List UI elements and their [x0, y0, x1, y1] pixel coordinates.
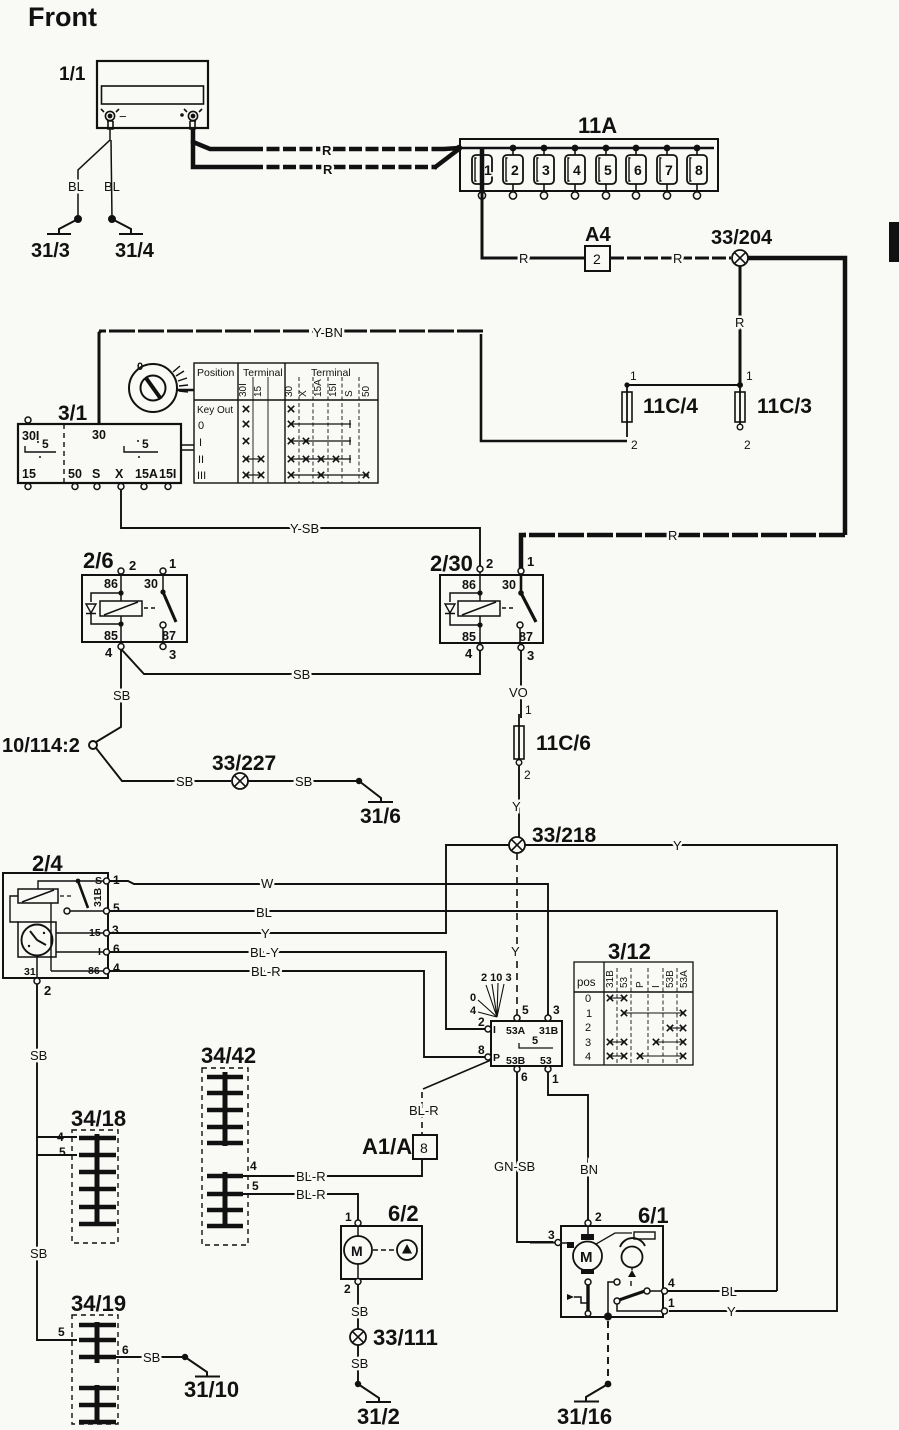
svg-text:1: 1	[668, 1296, 675, 1310]
svg-text:II: II	[198, 454, 204, 466]
svg-text:31B: 31B	[605, 970, 616, 988]
svg-text:BL: BL	[721, 1284, 737, 1299]
pin circles 3/1 bottom	[25, 484, 171, 490]
wire VO 2/30 pin3 to fuse 11C/6	[509, 651, 532, 718]
ground 31/6	[359, 781, 401, 828]
svg-text:3: 3	[553, 1003, 560, 1017]
svg-text:3: 3	[548, 1228, 555, 1242]
svg-text:33/204: 33/204	[711, 227, 773, 249]
svg-text:11C/3: 11C/3	[757, 395, 812, 418]
svg-text:1: 1	[527, 554, 534, 569]
svg-text:53B: 53B	[506, 1055, 526, 1067]
svg-text:A1/A: A1/A	[362, 1134, 412, 1159]
svg-text:86: 86	[104, 577, 118, 591]
svg-text:A4: A4	[585, 224, 611, 246]
table marks row II	[243, 456, 249, 462]
svg-text:2: 2	[595, 1210, 602, 1224]
fuse 11A #8	[687, 145, 707, 199]
svg-text:11C/4: 11C/4	[643, 395, 698, 418]
svg-text:11C/6: 11C/6	[536, 732, 591, 755]
fuse 11A #6	[626, 145, 646, 199]
svg-text:2: 2	[129, 558, 136, 573]
svg-text:34/19: 34/19	[71, 1291, 126, 1316]
svg-text:Y: Y	[673, 838, 682, 853]
svg-text:R: R	[323, 162, 333, 177]
2/4 right edge pins	[104, 878, 110, 974]
6/1 motor M	[587, 1226, 589, 1234]
relay 2/30 diode	[450, 593, 480, 625]
svg-text:15A: 15A	[313, 379, 324, 397]
svg-text:BL: BL	[256, 905, 272, 920]
wire Y splice 33/218 right to 6/1 pin 1	[525, 838, 837, 1319]
wire SB 33/111 to ground 31/2	[351, 1345, 368, 1387]
svg-text:15A: 15A	[135, 467, 158, 481]
svg-text:15: 15	[22, 467, 36, 481]
svg-text:15I: 15I	[159, 467, 176, 481]
wire BL-R A1/A to 34/42 pin4	[243, 1159, 422, 1184]
svg-text:0: 0	[198, 420, 204, 432]
svg-text:5: 5	[142, 437, 149, 451]
svg-text:4: 4	[573, 162, 581, 178]
3/12 table marks	[607, 995, 613, 1001]
svg-text:P: P	[493, 1052, 500, 1064]
svg-text:3/1: 3/1	[58, 402, 88, 425]
stalk position fan	[478, 983, 504, 1017]
wire SB 10/114:2 to splice 33/227	[96, 748, 231, 789]
battery terminal negative	[101, 109, 127, 129]
svg-text:5: 5	[604, 162, 612, 178]
svg-text:6: 6	[521, 1070, 528, 1084]
svg-text:30I: 30I	[238, 383, 249, 397]
wire SB 34/18 to connector 34/19	[30, 1155, 77, 1340]
svg-text:5: 5	[252, 1179, 259, 1193]
6/1 motor to park contact	[585, 1279, 591, 1285]
svg-text:VO: VO	[509, 685, 528, 700]
svg-text:5: 5	[58, 1325, 65, 1339]
wire Y splice 33/218 to 2/4 pin 3	[109, 845, 509, 941]
svg-text:R: R	[735, 315, 744, 330]
wire BL 6/1 pin4 right	[668, 1284, 777, 1299]
rear wiper motor 6/1	[530, 1203, 675, 1321]
svg-text:7: 7	[665, 162, 673, 178]
svg-text:85: 85	[462, 630, 476, 644]
6/1 wiper linkage symbol	[596, 1233, 632, 1244]
svg-text:I: I	[651, 985, 662, 988]
wire Y 11C/6 to splice 33/218	[512, 765, 521, 837]
svg-text:15I: 15I	[328, 383, 339, 397]
wire R fuse1 to connector A4	[482, 148, 585, 266]
6/1 switch arm	[614, 1298, 620, 1304]
wire BN 3/12 pin1 to wiper motor 6/1 pin2	[548, 1072, 598, 1220]
svg-text:M: M	[580, 1249, 593, 1266]
wire R splice 33/204 down to fuse 11C/3	[735, 266, 744, 385]
svg-text:1: 1	[525, 703, 532, 717]
svg-text:Y: Y	[261, 926, 270, 941]
svg-text:31B: 31B	[539, 1025, 559, 1037]
svg-text:31B: 31B	[92, 887, 104, 907]
svg-text:11A: 11A	[578, 113, 617, 138]
svg-text:SB: SB	[351, 1356, 368, 1371]
relay 2/30 coil	[458, 601, 500, 616]
svg-text:30: 30	[284, 385, 295, 397]
svg-text:6/1: 6/1	[638, 1203, 669, 1228]
svg-text:S: S	[344, 390, 355, 397]
svg-text:P: P	[635, 981, 646, 988]
svg-text:4: 4	[250, 1159, 257, 1173]
svg-text:BL: BL	[104, 179, 120, 194]
2/4 coil	[18, 889, 58, 903]
wiper switch 3/12	[470, 972, 562, 1086]
fuse 11A #4	[565, 145, 585, 199]
wire SB 34/19 pin6 to ground 31/10	[116, 1350, 188, 1365]
relay 2/6 diode	[91, 593, 121, 624]
svg-text:BL-R: BL-R	[251, 964, 281, 979]
relay 2/6	[82, 548, 187, 662]
svg-text:Y: Y	[511, 944, 520, 959]
svg-text:6/2: 6/2	[388, 1201, 419, 1226]
link 3/1 to table	[181, 445, 194, 450]
svg-text:6: 6	[634, 162, 642, 178]
svg-text:1: 1	[484, 162, 492, 178]
wire BL 2/4 pin5 to 6/1 pin4	[110, 905, 777, 1291]
washer pump 6/2	[341, 1201, 422, 1296]
svg-text:Y: Y	[512, 799, 521, 814]
svg-text:4: 4	[585, 1051, 591, 1063]
svg-text:1: 1	[552, 1072, 559, 1086]
svg-text:53A: 53A	[506, 1025, 526, 1037]
svg-text:31/10: 31/10	[184, 1377, 239, 1402]
svg-text:2: 2	[44, 983, 51, 998]
svg-text:8: 8	[420, 1140, 428, 1156]
svg-text:X: X	[298, 390, 309, 397]
wire SB 2/6 pin4 down to 10/114:2	[96, 650, 130, 742]
svg-text:1: 1	[169, 556, 176, 571]
svg-text:2: 2	[585, 1022, 591, 1034]
svg-text:S: S	[92, 467, 100, 481]
ignition key cylinder	[129, 361, 194, 412]
svg-text:87: 87	[162, 629, 176, 643]
svg-text:30I: 30I	[22, 429, 39, 443]
intermittent wiper relay 2/4	[3, 851, 120, 998]
wire SB 2/4 pin2 down to connector 34/18	[30, 984, 77, 1155]
svg-text:50: 50	[68, 467, 82, 481]
fuse 11C/6	[514, 714, 591, 782]
svg-text:3: 3	[169, 647, 176, 662]
svg-text:6: 6	[113, 942, 120, 956]
wire SB 33/227 to ground 31/6	[248, 774, 362, 789]
svg-text:M: M	[351, 1243, 363, 1259]
ground 31/3	[31, 216, 81, 262]
svg-text:BL-R: BL-R	[296, 1187, 326, 1202]
svg-text:1/1: 1/1	[59, 64, 86, 85]
contact symbol 5 inside 3/12	[519, 1043, 553, 1048]
svg-text:8: 8	[478, 1043, 485, 1057]
svg-text:R: R	[673, 251, 682, 266]
svg-text:86: 86	[88, 965, 100, 977]
svg-text:33/218: 33/218	[532, 824, 597, 847]
svg-text:III: III	[197, 470, 206, 482]
wire BL-R 3/12 pin8 to connector A1/A	[409, 1060, 491, 1135]
title Front	[28, 2, 97, 32]
connector 34/19	[58, 1291, 129, 1424]
connector 34/18	[57, 1106, 126, 1243]
connector 10/114:2	[2, 735, 97, 757]
2/4 timer unit	[18, 922, 56, 957]
svg-text:3: 3	[542, 162, 550, 178]
svg-text:2: 2	[631, 438, 638, 452]
svg-text:3: 3	[112, 923, 119, 937]
svg-text:2: 2	[524, 768, 531, 782]
svg-text:87: 87	[519, 630, 533, 644]
svg-text:5: 5	[113, 901, 120, 915]
wire BL-R 34/42 pin5 to washer pump 6/2 pin1	[243, 1187, 358, 1220]
svg-text:SB: SB	[30, 1048, 47, 1063]
svg-text:2: 2	[744, 438, 751, 452]
wire GN-SB 3/12 pin6 to wiper motor 6/1 pin3	[494, 1072, 553, 1242]
svg-text:BL-R: BL-R	[296, 1169, 326, 1184]
wire 6/1 to ground 31/16	[605, 1321, 612, 1387]
svg-text:Y: Y	[727, 1304, 736, 1319]
svg-text:SB: SB	[176, 774, 193, 789]
svg-text:4: 4	[113, 961, 120, 975]
relay 2/30 switch	[520, 574, 523, 593]
svg-text:W: W	[261, 876, 274, 891]
scan mark right edge	[889, 222, 899, 262]
wire W 2/4 pin1 to switch 3/12 pin3	[110, 876, 548, 1015]
relay 2/30	[430, 551, 543, 663]
svg-text:SB: SB	[30, 1246, 47, 1261]
svg-text:0: 0	[585, 993, 591, 1005]
svg-text:Y-SB: Y-SB	[290, 521, 319, 536]
connector 34/42	[201, 1043, 259, 1245]
ground 31/4	[109, 216, 155, 262]
ground 31/10	[184, 1357, 239, 1402]
svg-text:1: 1	[113, 873, 120, 887]
table marks row III	[243, 472, 249, 478]
svg-text:S: S	[95, 875, 102, 887]
svg-text:Y-BN: Y-BN	[313, 325, 343, 340]
svg-text:31: 31	[24, 966, 36, 978]
svg-text:31/3: 31/3	[31, 240, 70, 262]
svg-text:2 10 3: 2 10 3	[481, 972, 512, 984]
svg-text:31/4: 31/4	[115, 240, 155, 262]
connector A1/A pin 8	[362, 1134, 437, 1159]
svg-text:1: 1	[345, 1210, 352, 1224]
contact symbol 5 left section	[25, 446, 56, 452]
svg-text:2/6: 2/6	[83, 548, 114, 573]
svg-text:2: 2	[478, 1015, 485, 1029]
svg-text:34/42: 34/42	[201, 1043, 256, 1068]
wire BL-Y 2/4 pin6 to switch 3/12 pin2	[110, 945, 485, 1029]
svg-text:5: 5	[59, 1145, 66, 1159]
svg-text:4: 4	[470, 1005, 477, 1017]
svg-text:R: R	[668, 528, 677, 543]
svg-text:Terminal: Terminal	[243, 367, 283, 379]
svg-text:SB: SB	[113, 688, 130, 703]
svg-text:−: −	[119, 109, 127, 124]
splice 33/227	[212, 752, 276, 789]
svg-text:5: 5	[522, 1003, 529, 1017]
fuse 11A #5	[596, 145, 616, 199]
svg-text:2/30: 2/30	[430, 551, 473, 576]
relay 2/6 switch	[162, 574, 164, 592]
svg-text:53A: 53A	[679, 970, 690, 988]
svg-text:15: 15	[89, 927, 101, 939]
splice 33/204	[711, 227, 773, 266]
connector A4 pin 2	[585, 224, 611, 271]
svg-text:2: 2	[511, 162, 519, 178]
svg-text:2: 2	[593, 251, 601, 267]
svg-text:4: 4	[465, 646, 473, 661]
ignition switch position table	[194, 363, 378, 483]
svg-text:53: 53	[619, 976, 630, 988]
wire Y-BN fuse 11C/4 pin2 to ignition switch terminal 30	[99, 325, 627, 441]
svg-text:86: 86	[462, 578, 476, 592]
contact symbol 5 right section	[124, 446, 158, 452]
fuse 11A #3	[534, 145, 554, 199]
wire Y-SB ignition X to relay 2/30 pin 2	[121, 490, 480, 566]
svg-text:10/114:2: 10/114:2	[2, 735, 80, 757]
svg-text:31/2: 31/2	[357, 1404, 400, 1429]
splice 33/111	[350, 1325, 438, 1350]
table marks row I	[243, 438, 249, 444]
svg-text:Position: Position	[197, 367, 235, 379]
svg-text:pos: pos	[577, 977, 596, 989]
ground 31/2	[357, 1384, 400, 1429]
svg-text:6: 6	[122, 1343, 129, 1357]
svg-text:5: 5	[42, 437, 49, 451]
svg-text:SB: SB	[351, 1304, 368, 1319]
relay 2/6 coil	[100, 601, 142, 616]
svg-text:BL-R: BL-R	[409, 1103, 439, 1118]
table marks row 0	[243, 421, 249, 427]
svg-text:30: 30	[144, 577, 158, 591]
svg-text:0: 0	[137, 361, 143, 373]
svg-text:Key Out: Key Out	[197, 405, 233, 416]
6/1 park switch symbol	[567, 1294, 574, 1300]
svg-text:Front: Front	[28, 2, 97, 32]
svg-text:50: 50	[361, 385, 372, 397]
wire Y splice 33/218 down to switch 3/12 pin 5 (dashed)	[511, 853, 520, 1015]
svg-text:4: 4	[105, 645, 113, 660]
battery 1/1	[59, 61, 208, 128]
svg-text:BN: BN	[580, 1162, 598, 1177]
svg-text:30: 30	[502, 578, 516, 592]
wire SB 6/2 pin2 to splice 33/111	[351, 1285, 368, 1329]
battery terminal positive	[180, 109, 202, 129]
svg-text:R: R	[519, 251, 528, 266]
svg-text:53: 53	[540, 1055, 552, 1067]
svg-text:15: 15	[253, 385, 264, 397]
wire R A4 to splice 33/204	[610, 251, 731, 266]
table marks row Key Out	[243, 406, 249, 412]
wire R battery to fuse box upper	[193, 129, 459, 158]
fuse 11C/4	[622, 369, 698, 452]
svg-text:I: I	[98, 946, 101, 958]
fuse box 11A	[460, 113, 718, 191]
svg-text:SB: SB	[295, 774, 312, 789]
svg-text:Terminal: Terminal	[311, 367, 351, 379]
svg-text:31/16: 31/16	[557, 1404, 612, 1429]
svg-text:85: 85	[104, 629, 118, 643]
svg-text:3: 3	[527, 648, 534, 663]
wire R splice 33/204 right and down to relay 2/30 pin 1	[521, 258, 845, 568]
svg-text:I: I	[199, 437, 202, 449]
svg-text:3: 3	[585, 1037, 591, 1049]
svg-text:1: 1	[586, 1008, 592, 1020]
svg-text:53B: 53B	[665, 970, 676, 988]
svg-text:BL-Y: BL-Y	[250, 945, 279, 960]
svg-text:GN-SB: GN-SB	[494, 1159, 535, 1174]
svg-text:2: 2	[486, 556, 493, 571]
svg-text:BL: BL	[68, 179, 84, 194]
svg-text:2: 2	[344, 1282, 351, 1296]
svg-text:0: 0	[470, 992, 476, 1004]
svg-text:1: 1	[746, 369, 753, 383]
wire BL-R 2/4 pin4 to switch 3/12 pin8	[110, 964, 485, 1057]
svg-text:5: 5	[532, 1035, 538, 1047]
svg-text:4: 4	[57, 1130, 64, 1144]
svg-text:SB: SB	[143, 1350, 160, 1365]
svg-text:30: 30	[92, 428, 106, 442]
svg-text:34/18: 34/18	[71, 1106, 126, 1131]
svg-text:X: X	[115, 467, 124, 481]
svg-text:33/111: 33/111	[373, 1325, 438, 1350]
wire link 11C/4 pin1 to 11C/3 pin1	[624, 382, 743, 388]
fuse 11A #1	[472, 155, 492, 199]
svg-text:I: I	[493, 1024, 496, 1036]
wire BL battery to ground 31/4	[104, 140, 120, 219]
ignition switch 3/1	[18, 402, 194, 490]
fuse 11A #2	[503, 145, 523, 199]
wire BL battery to ground 31/3	[68, 129, 110, 219]
svg-text:SB: SB	[293, 667, 310, 682]
wire R battery to fuse box lower	[193, 140, 462, 177]
2/4 switch	[76, 879, 81, 884]
wiper switch position table 3/12	[574, 939, 693, 1065]
svg-text:4: 4	[668, 1276, 675, 1290]
fuse 11C/3	[735, 369, 812, 452]
svg-text:R: R	[322, 143, 332, 158]
ground 31/16	[557, 1384, 612, 1429]
svg-text:1: 1	[630, 369, 637, 383]
fuse 11A #7	[657, 145, 677, 199]
svg-text:33/227: 33/227	[212, 752, 276, 775]
svg-text:3/12: 3/12	[608, 939, 651, 964]
svg-text:8: 8	[695, 162, 703, 178]
splice 33/218	[509, 824, 597, 853]
6/1 park feed line	[614, 1279, 620, 1285]
svg-text:31/6: 31/6	[360, 805, 401, 828]
wire SB 2/6 pin4 to 2/30 pin4	[122, 650, 480, 682]
